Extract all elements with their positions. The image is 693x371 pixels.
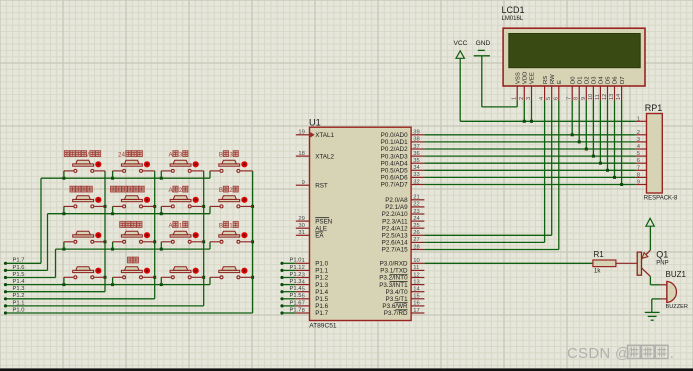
button label 增加比赛节数 — [111, 186, 145, 192]
wire P1.0 net (keypad column 4) — [4, 171, 254, 315]
svg-text:3: 3 — [637, 137, 640, 143]
svg-text:24: 24 — [413, 216, 420, 222]
U1 XTAL1 clock arrow — [310, 132, 314, 138]
svg-text:P1.5: P1.5 — [315, 296, 328, 303]
svg-text:P1.1: P1.1 — [315, 268, 328, 275]
push-button row2 col4 — [210, 196, 253, 214]
button label 清除报警 — [120, 222, 142, 228]
LCD1 pin numbers 1-14 — [512, 94, 622, 100]
ground GND (top) — [474, 40, 491, 56]
push-button row3 col2 — [113, 231, 155, 249]
button label A加2分 — [169, 186, 188, 194]
svg-text:12: 12 — [413, 272, 419, 278]
wire VCC rail to RP1 pin1, LCD VDD/VEE — [460, 58, 636, 123]
svg-text:23: 23 — [413, 209, 419, 215]
svg-text:VCC: VCC — [454, 40, 468, 47]
svg-text:D3: D3 — [592, 76, 598, 84]
svg-text:1k: 1k — [594, 268, 601, 274]
svg-text:P1.1: P1.1 — [13, 300, 25, 306]
push-button row4 col1 — [64, 267, 105, 285]
svg-text:BUZ1: BUZ1 — [666, 270, 687, 279]
push-button row1 col4 — [210, 160, 253, 178]
wire U1 P0.4 / LCD D4 / RP1 pin 6 — [424, 101, 635, 165]
RP1 pin stubs and numbers — [636, 116, 647, 185]
svg-text:25: 25 — [413, 223, 419, 229]
svg-text:26: 26 — [413, 230, 419, 236]
svg-text:PSEN: PSEN — [315, 218, 333, 225]
svg-text:18: 18 — [298, 151, 304, 157]
push-button row4 col3 — [161, 267, 203, 285]
svg-text:ALE: ALE — [315, 225, 327, 232]
push-button row2 col3 — [161, 196, 203, 214]
wire Q1 collector to BUZ1 — [650, 276, 667, 284]
node label P1.2 at U1 pin 3 — [280, 272, 301, 279]
svg-text:34: 34 — [413, 165, 420, 171]
wire U1 P0.3 / LCD D3 / RP1 pin 5 — [424, 101, 635, 158]
svg-text:8: 8 — [637, 172, 640, 178]
svg-text:31: 31 — [298, 230, 304, 236]
wire LCD RS to U1 P2.6 — [424, 101, 544, 243]
svg-text:AT89C51: AT89C51 — [309, 323, 337, 330]
svg-text:10: 10 — [588, 94, 594, 100]
svg-text:P0.1/AD1: P0.1/AD1 — [381, 139, 408, 146]
push-button row3 col1 — [64, 231, 105, 249]
svg-text:9: 9 — [637, 180, 640, 186]
svg-text:P2.6/A14: P2.6/A14 — [382, 240, 408, 247]
svg-text:RESPACK-8: RESPACK-8 — [644, 195, 678, 201]
svg-text:P3.4/T0: P3.4/T0 — [386, 289, 409, 296]
node label P1.3 at U1 pin 4 — [280, 279, 301, 286]
svg-text:7: 7 — [567, 97, 573, 100]
button label 比赛暂停 — [70, 186, 92, 192]
svg-text:3: 3 — [526, 97, 532, 100]
wire LCD RW to U1 P2.5 — [424, 101, 551, 236]
svg-text:6: 6 — [637, 158, 640, 164]
svg-text:P0.6/AD6: P0.6/AD6 — [381, 175, 408, 182]
push-button row1 col2 — [113, 160, 155, 178]
wire P1.3 net (keypad column 1) — [4, 171, 107, 293]
wire BUZ1 to ground — [652, 299, 667, 313]
svg-text:27: 27 — [413, 237, 419, 243]
svg-text:P1.1: P1.1 — [290, 265, 302, 271]
button label 24秒复位 — [118, 151, 142, 159]
svg-text:B: B — [219, 187, 223, 194]
svg-text:38: 38 — [413, 137, 419, 143]
wire P1.4 net (row4 bus) — [4, 283, 210, 286]
svg-text:LM016L: LM016L — [502, 16, 524, 22]
svg-text:D0: D0 — [570, 76, 576, 84]
svg-text:P1.3: P1.3 — [315, 282, 328, 289]
svg-text:P2.5/A13: P2.5/A13 — [382, 233, 408, 240]
buzzer BUZ1 — [667, 281, 677, 302]
wire P1.6 net (row2 bus) — [4, 212, 210, 272]
svg-text:11: 11 — [595, 94, 601, 100]
svg-text:RP1: RP1 — [645, 103, 663, 113]
svg-text:3: 3 — [302, 272, 305, 278]
wire P1.2 net (keypad column 2) — [4, 171, 156, 301]
svg-text:VSS: VSS — [515, 72, 521, 84]
svg-text:U1: U1 — [309, 118, 321, 128]
svg-text:33: 33 — [413, 172, 419, 178]
wire P1.5 net (row3 bus) — [4, 248, 210, 280]
svg-text:RS: RS — [543, 76, 549, 84]
svg-text:2: 2 — [302, 265, 305, 271]
svg-text:37: 37 — [413, 144, 419, 150]
svg-text:13: 13 — [413, 279, 419, 285]
button label B加2分 — [219, 186, 238, 194]
svg-text:P1.0: P1.0 — [290, 258, 302, 264]
transistor Q1 PNP — [637, 250, 650, 276]
svg-text:B: B — [219, 151, 223, 158]
svg-text:24: 24 — [118, 151, 126, 158]
wire U1 P0.0 / LCD D0 / RP1 pin 2 — [424, 101, 635, 137]
svg-text:P2.3/A11: P2.3/A11 — [382, 218, 408, 225]
svg-text:P1.5: P1.5 — [290, 293, 302, 299]
svg-text:8: 8 — [302, 308, 305, 314]
node label P1.0 at U1 pin 1 — [280, 258, 301, 265]
svg-text:D7: D7 — [620, 76, 626, 84]
node label P1.7 at U1 pin 8 — [280, 307, 301, 314]
svg-text:30: 30 — [298, 223, 304, 229]
svg-text:P1.3: P1.3 — [290, 279, 302, 285]
svg-text:5: 5 — [302, 287, 305, 293]
svg-text:19: 19 — [298, 130, 304, 136]
wire P1.7 net (row1 bus) — [4, 177, 210, 265]
svg-text:36: 36 — [413, 151, 419, 157]
svg-text:7: 7 — [302, 301, 305, 307]
svg-text:28: 28 — [413, 244, 419, 250]
svg-text:LCD1: LCD1 — [502, 5, 525, 15]
svg-text:E: E — [557, 80, 563, 84]
wire U1 P3.0 to R1 — [424, 262, 593, 264]
microcontroller U1 AT89C51 — [310, 127, 412, 320]
svg-text:RW: RW — [550, 74, 556, 84]
svg-text:P1.7: P1.7 — [315, 310, 328, 317]
node label P1.4 at U1 pin 5 — [280, 286, 302, 293]
svg-text:11: 11 — [413, 265, 419, 271]
svg-text:P1.2: P1.2 — [13, 293, 25, 299]
wire R1 to Q1 base — [616, 262, 637, 264]
svg-text:5: 5 — [637, 151, 640, 157]
U1 left pin names — [315, 132, 334, 317]
svg-text:P1.5: P1.5 — [13, 272, 25, 278]
svg-text:16: 16 — [413, 301, 419, 307]
svg-text:P1.6: P1.6 — [13, 265, 25, 271]
svg-text:15: 15 — [413, 294, 419, 300]
svg-text:7: 7 — [637, 165, 640, 171]
svg-text:D6: D6 — [613, 76, 619, 84]
svg-text:6: 6 — [553, 97, 559, 100]
U1 right pin stubs and numbers — [411, 130, 424, 314]
svg-text:P0.3/AD3: P0.3/AD3 — [381, 153, 408, 160]
wire U1 P0.6 / LCD D6 / RP1 pin 8 — [424, 101, 635, 179]
svg-text:22: 22 — [413, 202, 419, 208]
power VCC above Q1 — [646, 218, 654, 226]
svg-text:P2.4/A12: P2.4/A12 — [382, 225, 408, 232]
svg-text:P0.0/AD0: P0.0/AD0 — [381, 132, 408, 139]
svg-text:P2.1/A9: P2.1/A9 — [385, 204, 408, 211]
svg-text:35: 35 — [413, 158, 419, 164]
svg-text:P1.2: P1.2 — [290, 272, 302, 278]
svg-text:VEE: VEE — [530, 72, 536, 84]
svg-text:.: . — [670, 346, 674, 362]
svg-text:9: 9 — [581, 97, 587, 100]
svg-text:P3.7/RD: P3.7/RD — [384, 310, 408, 317]
svg-text:P1.4: P1.4 — [13, 279, 26, 285]
svg-text:Q1: Q1 — [656, 250, 668, 260]
svg-text:P2.0/A8: P2.0/A8 — [385, 197, 408, 204]
svg-text:6: 6 — [302, 294, 305, 300]
svg-text:12: 12 — [602, 94, 608, 100]
svg-text:P3.5/T1: P3.5/T1 — [386, 296, 409, 303]
svg-text:1: 1 — [302, 258, 305, 264]
power VCC (top) — [454, 40, 468, 58]
bottom window edge — [0, 368, 693, 371]
button label B加3分 — [219, 151, 238, 159]
wire U1 P0.2 / LCD D2 / RP1 pin 4 — [424, 101, 635, 151]
wire U1 P0.5 / LCD D5 / RP1 pin 7 — [424, 101, 635, 172]
push-button row1 col1 — [64, 160, 105, 178]
svg-text:D5: D5 — [606, 76, 612, 84]
svg-text:8: 8 — [574, 97, 580, 100]
svg-text:BUZZER: BUZZER — [666, 304, 688, 310]
node label P1.5 at U1 pin 6 — [280, 293, 301, 300]
svg-text:XTAL1: XTAL1 — [315, 132, 334, 139]
svg-text:P1.2: P1.2 — [315, 275, 328, 282]
push-button row3 col3 — [161, 231, 203, 249]
wire GND to LCD VSS — [482, 56, 517, 107]
push-button row2 col2 — [113, 196, 155, 214]
svg-text:B: B — [219, 222, 223, 229]
resistor R1 — [593, 260, 616, 267]
wire LCD E to U1 P2.7 — [424, 101, 558, 250]
svg-text:P0.5/AD5: P0.5/AD5 — [381, 168, 408, 175]
svg-text:P2.2/A10: P2.2/A10 — [382, 211, 408, 218]
svg-text:VDD: VDD — [523, 72, 529, 84]
LCD1 pin names — [515, 72, 625, 84]
svg-text:P1.3: P1.3 — [13, 286, 25, 292]
button label 比赛开始/继续 — [64, 151, 100, 159]
watermark CSDN @柴月玖. — [567, 345, 674, 362]
wire P1.1 net (keypad column 3) — [4, 171, 205, 308]
svg-text:P1.4: P1.4 — [315, 289, 328, 296]
svg-text:2: 2 — [519, 97, 525, 100]
svg-text:P2.7/A15: P2.7/A15 — [382, 247, 408, 254]
svg-text:P3.3/INT1: P3.3/INT1 — [379, 282, 408, 289]
wire U1 P0.7 / LCD D7 / RP1 pin 9 — [424, 101, 635, 187]
svg-text:P0.2/AD2: P0.2/AD2 — [381, 146, 408, 153]
wire U1 P0.1 / LCD D1 / RP1 pin 3 — [424, 101, 635, 144]
svg-text:4: 4 — [539, 97, 545, 100]
button label A加3分 — [169, 151, 188, 159]
wire VCC to Q1 emitter — [649, 226, 651, 250]
push-button row2 col1 — [64, 196, 105, 214]
U1 right pin names — [379, 132, 408, 317]
svg-text:5: 5 — [546, 97, 552, 100]
svg-text:R1: R1 — [594, 250, 605, 259]
svg-text:10: 10 — [413, 258, 419, 264]
button label A加1分 — [169, 222, 188, 230]
svg-text:1: 1 — [512, 97, 518, 100]
U1 left pin stubs and numbers — [296, 130, 310, 314]
node label P1.1 at U1 pin 2 — [280, 265, 301, 272]
svg-text:D2: D2 — [585, 76, 591, 84]
svg-text:CSDN @: CSDN @ — [567, 346, 630, 362]
svg-text:1: 1 — [637, 116, 640, 122]
resistor pack RP1 RESPACK-8 — [647, 114, 663, 194]
push-button row4 col4 — [210, 267, 253, 285]
svg-text:32: 32 — [413, 179, 419, 185]
svg-text:P3.1/TXD: P3.1/TXD — [380, 268, 408, 275]
svg-text:P1.7: P1.7 — [13, 258, 25, 264]
svg-text:9: 9 — [302, 180, 305, 186]
svg-text:21: 21 — [413, 195, 419, 201]
svg-text:GND: GND — [476, 40, 491, 47]
button label B加1分 — [219, 222, 238, 230]
ground below BUZ1 — [645, 312, 660, 320]
svg-text:17: 17 — [413, 308, 419, 314]
svg-text:P1.7: P1.7 — [290, 307, 302, 313]
svg-text:P1.6: P1.6 — [290, 300, 302, 306]
push-button row1 col3 — [161, 160, 203, 178]
svg-text:P1.4: P1.4 — [290, 286, 303, 292]
svg-text:D4: D4 — [599, 76, 605, 84]
push-button row4 col2 — [113, 267, 155, 285]
svg-text:14: 14 — [413, 287, 420, 293]
button label 确认 — [128, 257, 139, 263]
svg-text:EA: EA — [315, 233, 324, 240]
svg-text:13: 13 — [609, 94, 615, 100]
svg-text:/: / — [87, 151, 89, 158]
svg-text:P0.4/AD4: P0.4/AD4 — [381, 160, 408, 167]
svg-text:29: 29 — [298, 216, 304, 222]
svg-text:XTAL2: XTAL2 — [315, 153, 334, 160]
svg-text:D1: D1 — [577, 76, 583, 84]
svg-text:PNP: PNP — [656, 260, 668, 266]
svg-text:39: 39 — [413, 130, 419, 136]
svg-text:P1.0: P1.0 — [315, 261, 328, 268]
svg-text:RST: RST — [315, 182, 328, 189]
svg-text:P3.2/INT0: P3.2/INT0 — [379, 275, 408, 282]
svg-text:P3.0/RXD: P3.0/RXD — [380, 261, 408, 268]
LCD display LCD1 LM016L — [503, 28, 645, 86]
svg-text:14: 14 — [616, 94, 622, 100]
node label P1.6 at U1 pin 7 — [280, 300, 301, 307]
svg-text:P1.0: P1.0 — [13, 307, 25, 313]
svg-text:4: 4 — [637, 144, 640, 150]
svg-text:2: 2 — [637, 130, 640, 136]
svg-text:P3.6/WR: P3.6/WR — [382, 303, 408, 310]
push-button row3 col4 — [210, 231, 253, 249]
svg-text:P0.7/AD7: P0.7/AD7 — [381, 182, 408, 189]
svg-text:P1.6: P1.6 — [315, 303, 328, 310]
LCD1 pin stubs — [517, 86, 621, 101]
